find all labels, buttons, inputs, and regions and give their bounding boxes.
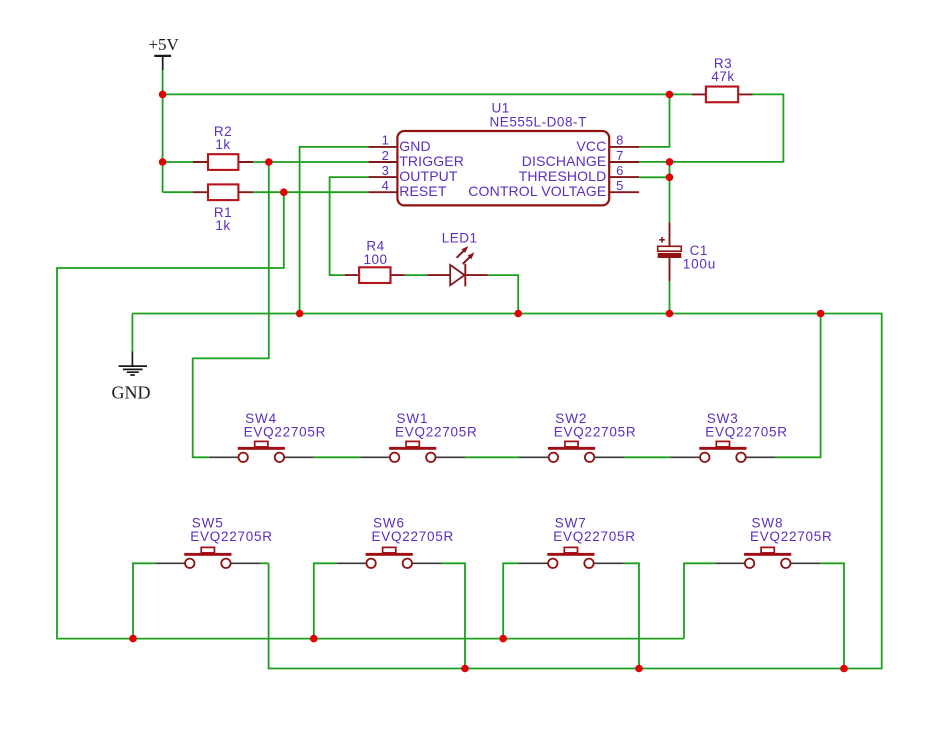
svg-text:EVQ22705R: EVQ22705R: [372, 529, 455, 544]
svg-text:GND: GND: [399, 138, 431, 154]
svg-text:VCC: VCC: [576, 138, 606, 154]
svg-text:100u: 100u: [683, 256, 716, 271]
svg-text:2: 2: [382, 148, 389, 163]
svg-text:EVQ22705R: EVQ22705R: [554, 424, 637, 439]
svg-text:1k: 1k: [215, 137, 230, 152]
svg-text:1: 1: [382, 133, 389, 148]
svg-text:U1: U1: [492, 101, 510, 116]
svg-text:EVQ22705R: EVQ22705R: [705, 424, 788, 439]
svg-text:RESET: RESET: [399, 183, 447, 199]
svg-text:EVQ22705R: EVQ22705R: [190, 529, 273, 544]
svg-text:GND: GND: [112, 382, 151, 402]
svg-text:3: 3: [382, 163, 389, 178]
svg-text:EVQ22705R: EVQ22705R: [395, 424, 478, 439]
svg-text:6: 6: [616, 163, 623, 178]
svg-text:100: 100: [363, 252, 387, 267]
svg-text:EVQ22705R: EVQ22705R: [750, 529, 833, 544]
svg-text:OUTPUT: OUTPUT: [399, 168, 458, 184]
svg-text:8: 8: [616, 133, 623, 148]
svg-text:5: 5: [616, 178, 623, 193]
svg-text:7: 7: [616, 148, 623, 163]
svg-text:LED1: LED1: [442, 230, 478, 245]
svg-text:DISCHANGE: DISCHANGE: [522, 153, 607, 169]
svg-text:NE555L-D08-T: NE555L-D08-T: [490, 114, 587, 129]
svg-text:1k: 1k: [215, 218, 230, 233]
svg-text:+5V: +5V: [148, 35, 179, 54]
svg-text:THRESHOLD: THRESHOLD: [519, 168, 607, 184]
svg-text:EVQ22705R: EVQ22705R: [553, 529, 636, 544]
svg-text:CONTROL VOLTAGE: CONTROL VOLTAGE: [468, 183, 606, 199]
svg-text:TRIGGER: TRIGGER: [399, 153, 464, 169]
svg-text:4: 4: [382, 178, 389, 193]
svg-text:47k: 47k: [711, 69, 734, 84]
svg-text:EVQ22705R: EVQ22705R: [244, 424, 327, 439]
